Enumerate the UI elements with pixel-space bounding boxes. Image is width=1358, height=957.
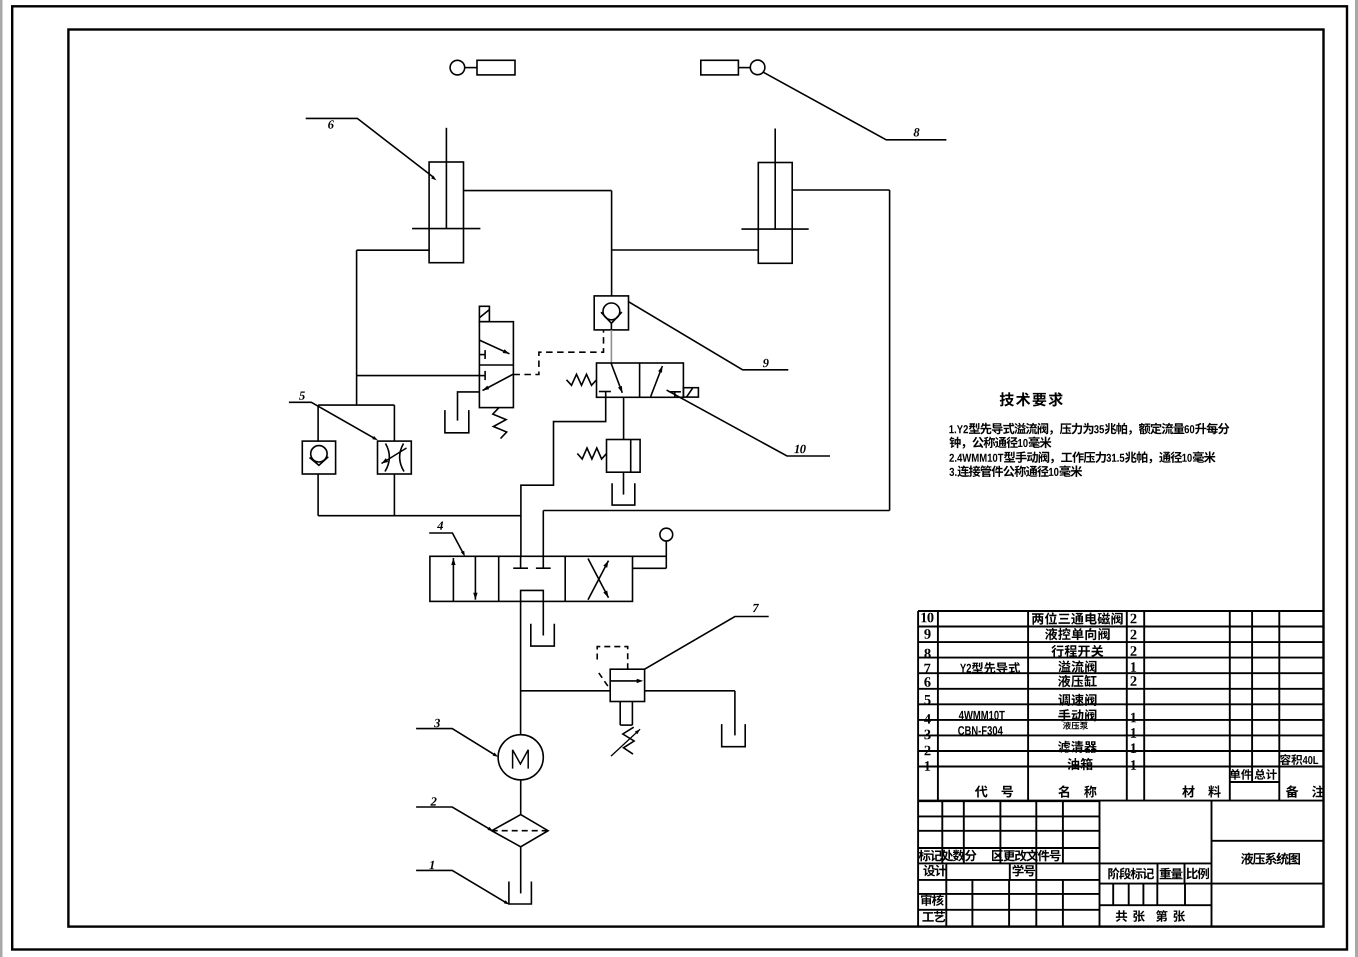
BOM row 3 — [924, 730, 930, 740]
manual directional valve 4: parallel arrow down — [474, 556, 476, 599]
label 7 — [753, 604, 759, 612]
speed control valve 5: top header — [318, 404, 394, 406]
BOM parts list table grid — [918, 610, 1323, 612]
solenoid valve 10 (right): body — [597, 363, 684, 397]
wire: B-port riser — [542, 511, 544, 557]
label 3 — [434, 719, 440, 727]
wire: check valve 9 internal stem — [610, 323, 612, 330]
title block 学号 — [1013, 865, 1036, 877]
label 1 — [429, 861, 434, 869]
manual directional valve 4: center PT loop — [521, 590, 544, 601]
BOM header 单件 — [1230, 769, 1252, 780]
relief valve 7: flow arrow — [610, 680, 637, 682]
wire: junction to right cylinder left port — [612, 249, 759, 251]
speed control valve 5: throttle arrow — [382, 448, 407, 464]
manual directional valve 4: lever knob — [660, 528, 673, 541]
page edge shading (decorative) — [0, 0, 3, 957]
label 2 — [430, 797, 436, 805]
pilot stage: divider — [630, 440, 632, 473]
wire: valve 10 left port — [357, 375, 480, 377]
title block 审核 — [921, 894, 944, 906]
wire: valve 10 output to A-line — [521, 397, 606, 556]
wire: B-line horizontal — [543, 510, 889, 512]
leader line 4 — [429, 533, 463, 554]
speed control valve 5: check ball — [311, 446, 327, 462]
label 5 — [299, 392, 305, 400]
solenoid valve 10 (left): position divider — [479, 364, 513, 366]
filter 2: mesh dashed line — [492, 830, 548, 832]
limit switch 8 (left): body — [477, 60, 515, 75]
pilot stage: spring — [577, 448, 606, 459]
solenoid valve 10 (left): body — [479, 322, 513, 408]
leader line 1 — [416, 870, 507, 903]
title block 工艺 — [922, 911, 945, 922]
technical requirements line 4 — [949, 465, 1082, 477]
BOM row 10 — [921, 613, 933, 623]
BOM row 4 — [924, 714, 931, 724]
solenoid valve 10 (right): position divider — [639, 363, 641, 397]
BOM row 7 — [924, 664, 930, 674]
leader line 5 — [289, 402, 375, 439]
tank symbol (drain, left) — [445, 410, 469, 433]
leader line 7 — [645, 617, 769, 670]
BOM header 材料 — [1182, 785, 1221, 797]
solenoid valve 10 (right): right flow arrow — [651, 366, 663, 397]
wire: P-port to pump — [520, 601, 522, 734]
solenoid valve 10 (right): right blocked port — [669, 391, 681, 393]
solenoid valve 10 (left): solenoid box — [479, 306, 489, 321]
manual directional valve 4: lever bracket — [633, 555, 667, 557]
leader line 8 — [763, 72, 946, 140]
BOM row 5 — [925, 695, 931, 705]
title block 区 — [992, 850, 1003, 861]
BOM header 备注 — [1286, 785, 1324, 797]
speed control valve 5: right branch wire — [393, 405, 395, 441]
speed control valve 5: check seat — [310, 457, 329, 466]
tank symbol (drain, center) — [612, 483, 635, 505]
wire: check valve 9 to solenoid valve 10 — [610, 330, 612, 363]
BOM row 9 — [924, 629, 930, 639]
hydraulic cylinder 6 (left): piston line — [412, 228, 480, 230]
wire: T-port drop — [542, 601, 544, 635]
label 8 — [914, 128, 920, 136]
title block 标记 — [919, 850, 942, 862]
speed control valve 5: throttle arc right — [400, 444, 404, 472]
hydraulic cylinder 6 (left): body — [429, 162, 463, 263]
technical requirements title — [1000, 392, 1063, 406]
wire: relief drain drop — [734, 691, 736, 736]
wire: left cylinder right port to junction — [464, 190, 612, 192]
BOM row 2 — [925, 746, 931, 756]
leader line 9 — [628, 301, 788, 370]
pilot stage: body — [607, 440, 641, 473]
BOM header 代号 — [975, 786, 1013, 798]
solenoid valve 10 (right): left blocked port — [599, 391, 611, 393]
solenoid valve 10 (right): solenoid slash — [687, 388, 693, 397]
wire: down to speed control valve — [356, 250, 358, 405]
title block grid — [918, 800, 1099, 802]
leader line 10 — [667, 390, 830, 456]
pump unit 3: M letter — [513, 750, 529, 769]
leader line 6 — [306, 118, 434, 177]
solenoid valve 10 (left): solenoid slash — [479, 310, 489, 318]
speed control valve 5: right branch lower wire — [393, 474, 395, 516]
solenoid valve 10 (left): lower flow arrow — [483, 374, 514, 390]
wire: junction down to check valve 9 — [611, 191, 613, 296]
pump unit 3: motor circle — [498, 735, 543, 780]
hydraulic cylinder 6 (right): piston line — [741, 228, 808, 230]
manual directional valve 4: body — [430, 556, 633, 601]
label 6 — [328, 120, 334, 128]
BOM row 1 — [925, 761, 930, 771]
drawing title 液压系统图 — [1241, 852, 1300, 864]
wire: filter to tank — [520, 847, 522, 894]
speed control valve 5: check valve body — [302, 441, 335, 474]
solenoid valve 10 (right): left flow arrow — [611, 364, 622, 393]
manual directional valve 4: divider left — [498, 556, 500, 601]
tank 1 — [509, 882, 532, 905]
relief valve 7: stem — [619, 702, 621, 726]
limit switch 8 (left): roller circle — [450, 60, 465, 75]
technical requirements line 1 — [949, 423, 1229, 435]
wire: valve 10 to pilot stage — [623, 397, 625, 439]
manual directional valve 4: cross arrow 2 — [588, 559, 609, 598]
manual directional valve 4: divider right — [564, 556, 566, 601]
manual directional valve 4: center blocked A — [520, 556, 522, 568]
tank symbol (relief drain) — [722, 724, 746, 747]
title block 设计 — [923, 865, 946, 877]
pilot line (dashed) from valve 10 to check valve 9 — [513, 331, 603, 375]
relief valve 7: body — [610, 669, 644, 701]
wire: valve 10 drain — [458, 392, 480, 421]
wire: pilot stage drain — [623, 472, 625, 494]
pilot operated check valve 9: ball — [603, 303, 620, 320]
label 9 — [763, 359, 769, 367]
leader line 3 — [416, 729, 496, 756]
title block 处数 — [941, 850, 965, 862]
speed control valve 5: left branch wire — [317, 405, 319, 441]
relief valve 7: adjust arrow — [611, 729, 640, 756]
limit switch 8 (right): body — [701, 60, 739, 75]
limit switch 8 (right): stem wire — [738, 67, 750, 69]
BOM row 6 — [924, 677, 930, 687]
label 4 — [437, 522, 443, 530]
solenoid valve 10 (left): lower blocked port — [484, 371, 486, 380]
title block 共张第张 — [1116, 910, 1185, 922]
BOM header 名称 — [1058, 785, 1096, 797]
wire: right cylinder right port — [792, 189, 889, 191]
title block 比例 — [1187, 868, 1210, 880]
manual directional valve 4: parallel arrow up — [452, 558, 454, 601]
wire: pump branch to relief valve (left) — [521, 690, 611, 692]
manual directional valve 4: cross arrow 1 — [588, 561, 609, 600]
title block 更改文件号 — [1003, 850, 1060, 862]
title block 分 — [965, 850, 977, 862]
solenoid valve 10 (left): upper flow arrow — [479, 340, 509, 354]
wire: right side long drop — [889, 190, 891, 511]
limit switch 8 (left): stem wire — [465, 67, 477, 69]
speed control valve 5: throttle arc left — [385, 444, 389, 472]
wire: speed valve output to A-line — [318, 515, 521, 517]
tank symbol (T port) — [531, 624, 555, 646]
pilot operated check valve 9: body — [594, 296, 628, 330]
BOM header 总计 — [1255, 769, 1277, 780]
solenoid valve 10 (right): return spring — [567, 374, 597, 385]
filter 2: diamond — [492, 815, 548, 847]
label 10 — [794, 445, 806, 453]
solenoid valve 10 (left): upper blocked port — [484, 350, 486, 359]
wire: motor to filter — [520, 780, 522, 815]
pilot operated check valve 9: seat — [601, 312, 622, 323]
BOM row 8 — [924, 649, 930, 659]
speed control valve 5: throttle body — [378, 441, 412, 474]
wire: left cylinder left port — [357, 249, 430, 251]
technical requirements line 3 — [949, 451, 1215, 463]
relief valve 7: pilot dashes — [597, 647, 628, 670]
solenoid valve 10 (left): return spring — [493, 408, 507, 439]
title block 重量 — [1160, 868, 1183, 879]
technical requirements line 2 — [949, 437, 1051, 449]
limit switch 8 (right): roller circle — [750, 60, 765, 75]
hydraulic cylinder 6 (left): piston rod — [445, 128, 447, 229]
title block 阶段标记 — [1108, 868, 1154, 880]
leader line 2 — [416, 807, 491, 830]
speed control valve 5: left branch lower wire — [317, 474, 319, 516]
hydraulic cylinder 6 (right): piston rod — [774, 129, 776, 230]
solenoid valve 10 (right): solenoid box — [683, 388, 698, 397]
manual directional valve 4: center blocked B — [542, 556, 544, 568]
hydraulic cylinder 6 (right): body — [758, 163, 792, 264]
relief valve 7: spring — [623, 727, 634, 754]
wire: relief valve to drain (right) — [645, 690, 735, 692]
